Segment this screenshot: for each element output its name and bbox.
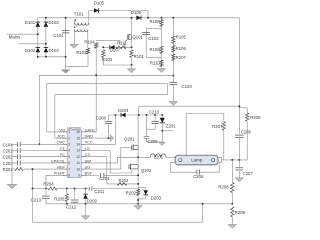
svg-text:13: 13 [76, 149, 80, 153]
svg-text:D102: D102 [25, 48, 36, 53]
svg-text:D103: D103 [49, 20, 60, 25]
svg-text:R209: R209 [235, 210, 246, 215]
svg-text:6: 6 [68, 161, 70, 165]
svg-text:12: 12 [76, 155, 80, 159]
svg-text:C212: C212 [66, 205, 77, 210]
svg-text:R110: R110 [150, 61, 161, 66]
svg-text:C203: C203 [3, 161, 14, 166]
svg-text:R108: R108 [150, 19, 161, 24]
svg-text:R105: R105 [176, 34, 187, 39]
svg-text:9: 9 [78, 174, 80, 178]
svg-text:C101: C101 [53, 33, 64, 38]
svg-text:R104: R104 [84, 39, 95, 44]
svg-text:ZCD: ZCD [57, 135, 65, 139]
svg-text:C209: C209 [147, 139, 158, 144]
svg-text:C206: C206 [193, 174, 204, 179]
svg-text:Lamp: Lamp [191, 158, 203, 163]
svg-text:R203: R203 [119, 178, 130, 183]
svg-text:5: 5 [68, 155, 70, 159]
svg-text:C204: C204 [99, 176, 110, 181]
svg-text:R204: R204 [43, 181, 54, 186]
svg-text:Q201: Q201 [124, 137, 135, 142]
svg-text:C202: C202 [3, 155, 14, 160]
svg-text:R205: R205 [54, 196, 65, 201]
svg-text:3: 3 [68, 143, 70, 147]
svg-text:R109: R109 [150, 47, 161, 52]
svg-text:C104: C104 [3, 142, 14, 147]
svg-text:R201: R201 [3, 167, 14, 172]
svg-text:R208: R208 [218, 184, 229, 189]
svg-text:7: 7 [68, 167, 70, 171]
svg-text:14: 14 [76, 143, 80, 147]
svg-text:D106: D106 [131, 10, 142, 15]
svg-text:10: 10 [76, 167, 80, 171]
svg-text:R207: R207 [212, 124, 223, 129]
svg-text:R106: R106 [176, 46, 187, 51]
svg-text:R206: R206 [250, 115, 261, 120]
svg-text:D105: D105 [94, 1, 105, 6]
svg-text:C103: C103 [182, 84, 193, 89]
svg-text:D204: D204 [118, 108, 129, 113]
svg-text:D202: D202 [87, 198, 98, 203]
svg-text:C208: C208 [96, 116, 107, 121]
svg-text:R101: R101 [134, 54, 145, 59]
svg-text:1: 1 [68, 130, 70, 134]
svg-text:4: 4 [68, 149, 70, 153]
svg-text:16: 16 [76, 130, 80, 134]
svg-text:+: + [234, 141, 236, 145]
svg-text:11: 11 [77, 161, 81, 165]
svg-text:Q202: Q202 [141, 168, 152, 173]
svg-text:T101: T101 [74, 12, 84, 17]
svg-text:Mains: Mains [9, 34, 22, 39]
svg-text:C102: C102 [148, 36, 159, 41]
svg-text:Q101: Q101 [132, 34, 143, 39]
svg-text:D203: D203 [151, 196, 162, 201]
svg-text:L201: L201 [154, 154, 164, 159]
svg-text:2: 2 [68, 136, 70, 140]
svg-text:C211: C211 [94, 189, 105, 194]
svg-text:R202: R202 [126, 190, 137, 195]
svg-text:C210: C210 [149, 109, 160, 114]
svg-text:D104: D104 [49, 48, 60, 53]
svg-text:VO: VO [59, 128, 65, 132]
svg-text:D101: D101 [25, 20, 36, 25]
svg-text:Z201: Z201 [166, 123, 176, 128]
svg-text:C201: C201 [3, 149, 14, 154]
svg-text:8: 8 [68, 174, 70, 178]
svg-text:C205: C205 [241, 130, 252, 135]
svg-text:R102: R102 [76, 50, 87, 55]
svg-text:15: 15 [76, 136, 80, 140]
svg-text:C207: C207 [243, 171, 254, 176]
svg-text:R107: R107 [176, 55, 187, 60]
svg-text:D107: D107 [110, 48, 121, 53]
